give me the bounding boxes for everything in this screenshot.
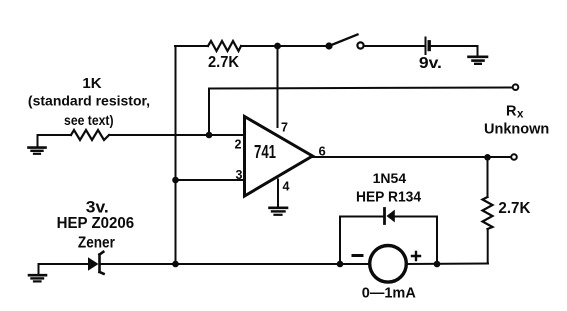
svg-text:see text): see text) bbox=[64, 112, 114, 128]
wire bottom left bbox=[39, 263, 89, 265]
wire battery to ground bbox=[432, 45, 478, 47]
svg-text:3: 3 bbox=[236, 168, 243, 182]
node junction pin2 bbox=[206, 132, 213, 139]
diode 1N54 bbox=[356, 170, 421, 224]
label Rx bbox=[484, 104, 549, 138]
node junction top bbox=[274, 43, 281, 50]
svg-text:741: 741 bbox=[254, 142, 276, 162]
switch S1 bbox=[325, 35, 363, 50]
svg-text:4: 4 bbox=[283, 180, 290, 194]
wire diode branch right vertical bbox=[436, 217, 438, 265]
wire diode branch top right bbox=[395, 216, 437, 218]
terminal Rx bottom bbox=[511, 154, 517, 160]
wire top left lead bbox=[175, 45, 208, 47]
wire bottom middle bbox=[101, 263, 369, 265]
node junction zener feedback bbox=[172, 261, 179, 268]
op-amp 741 bbox=[245, 117, 313, 197]
svg-text:R: R bbox=[506, 104, 517, 120]
node junction pin3 bbox=[172, 177, 179, 184]
svg-text:2.7K: 2.7K bbox=[498, 200, 530, 217]
svg-text:HEP Z0206: HEP Z0206 bbox=[57, 215, 135, 232]
svg-text:1K: 1K bbox=[82, 75, 101, 92]
svg-text:Unknown: Unknown bbox=[484, 122, 549, 138]
ground op-amp pin4 bbox=[270, 208, 288, 215]
battery 9v bbox=[419, 38, 442, 73]
node junction meter right bbox=[434, 261, 441, 268]
wire top middle bbox=[241, 45, 329, 47]
svg-text:x: x bbox=[517, 109, 524, 121]
svg-text:2: 2 bbox=[235, 138, 242, 152]
meter 0-1mA bbox=[353, 245, 420, 301]
svg-text:(standard resistor,: (standard resistor, bbox=[28, 93, 150, 109]
wire left vertical feedback bbox=[175, 46, 177, 264]
svg-text:HEP R134: HEP R134 bbox=[356, 190, 421, 206]
wire diode branch left vertical bbox=[339, 217, 341, 265]
wire pin2 left lead bbox=[38, 134, 72, 136]
wire output pin6 bbox=[313, 156, 512, 158]
resistor 2.7K meter bbox=[483, 157, 531, 263]
wire meter right bbox=[407, 263, 489, 266]
svg-text:2.7K: 2.7K bbox=[208, 54, 239, 71]
wire pin2 to op-amp bbox=[109, 134, 244, 136]
node junction output bbox=[484, 154, 491, 161]
svg-text:1N54: 1N54 bbox=[373, 170, 407, 186]
ground top right bbox=[469, 46, 488, 64]
wire diode branch top left bbox=[340, 216, 383, 218]
wire Rx upper horizontal bbox=[209, 88, 513, 136]
wire pin 7 supply bbox=[277, 46, 279, 127]
svg-text:Zener: Zener bbox=[78, 235, 115, 252]
ground zener left bbox=[29, 264, 46, 281]
svg-text:3v.: 3v. bbox=[86, 199, 109, 217]
svg-text:0—1mA: 0—1mA bbox=[362, 286, 417, 302]
wire switch to battery bbox=[364, 45, 424, 47]
zener diode HEP Z0206 bbox=[57, 199, 135, 274]
resistor 2.7K feedback bbox=[208, 41, 241, 71]
terminal Rx top bbox=[513, 84, 519, 90]
svg-text:9v.: 9v. bbox=[419, 55, 442, 72]
resistor 1K standard bbox=[28, 75, 150, 140]
wire pin3 bbox=[176, 179, 245, 181]
node junction meter left bbox=[337, 261, 344, 268]
ground 1K left bbox=[29, 135, 46, 154]
svg-text:7: 7 bbox=[281, 121, 288, 135]
wire pin 4 bbox=[277, 180, 279, 208]
